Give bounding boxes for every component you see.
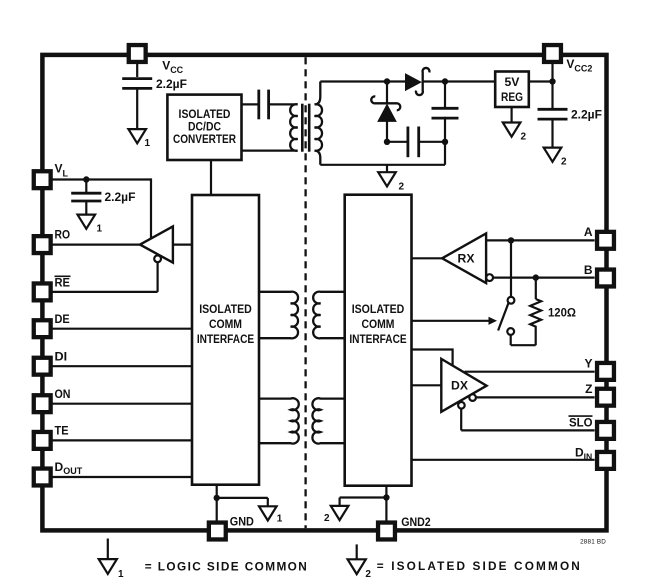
svg-text:B: B <box>584 263 593 277</box>
wire zener to C4 <box>387 141 408 143</box>
wire DC/DC to left comm interface <box>210 160 212 195</box>
isolated DC/DC converter block <box>167 95 241 160</box>
switch S1 blade <box>498 303 509 331</box>
svg-text:V: V <box>566 57 574 71</box>
svg-text:DE: DE <box>55 312 70 326</box>
wire C1 to ground 1 <box>136 88 138 129</box>
svg-text:RE: RE <box>55 276 71 290</box>
svg-text:L: L <box>63 168 69 178</box>
svg-text:D: D <box>55 460 64 474</box>
wire VL pin to node <box>51 178 151 180</box>
wire comm interface to DX input <box>412 384 442 386</box>
ground 2 (isolated common) <box>331 506 349 520</box>
ground 2 (5V REG) <box>503 123 521 137</box>
capacitor C1 2.2uF (VCC) <box>122 77 152 80</box>
svg-text:2: 2 <box>324 513 330 524</box>
pin RO <box>34 236 51 253</box>
svg-text:5V: 5V <box>505 75 521 89</box>
wire comm interface to RX <box>412 257 443 259</box>
svg-text:2: 2 <box>399 182 405 193</box>
svg-text:INTERFACE: INTERFACE <box>197 332 254 346</box>
wire A node to switch <box>510 240 512 297</box>
svg-text:ON: ON <box>55 387 71 401</box>
wire VL node to receiver buffer <box>150 178 152 239</box>
svg-text:TE: TE <box>55 424 69 438</box>
wire GND2 node to ground 2 <box>340 496 387 498</box>
zener diode D2 <box>386 82 388 104</box>
svg-text:= LOGIC SIDE COMMON: = LOGIC SIDE COMMON <box>145 560 307 574</box>
pin VL <box>34 171 51 188</box>
transformer T1 core <box>301 104 304 152</box>
resistor R1 120ohm <box>530 299 541 345</box>
svg-text:COMM: COMM <box>209 317 242 331</box>
IC package boundary <box>42 55 606 531</box>
svg-text:V: V <box>162 58 170 72</box>
wire DX bubble to pin Z <box>476 396 595 398</box>
wire switch to resistor bottom <box>510 335 512 345</box>
wire RX to pin A <box>486 239 594 241</box>
wire TE <box>51 439 192 441</box>
receiver buffer (RO) <box>140 226 173 262</box>
svg-text:1: 1 <box>97 224 103 235</box>
pin ON <box>34 395 51 412</box>
left isolated comm interface block <box>192 195 259 485</box>
wire VCC pin to C1 <box>136 62 138 77</box>
wire 5V REG to VCC2 node <box>529 80 553 82</box>
svg-text:INTERFACE: INTERFACE <box>349 332 406 346</box>
pin DE <box>34 320 51 337</box>
pin VCC2 <box>544 45 561 62</box>
switch S1 lower contact <box>507 328 514 335</box>
wire smoothing vertical <box>444 82 446 108</box>
schottky diode D1 <box>406 74 421 90</box>
wire DC/DC to T1 primary bottom <box>242 150 294 152</box>
node B junction <box>533 274 539 280</box>
node VCC2 <box>549 78 555 84</box>
legend ground 1 symbol <box>107 539 109 560</box>
pin B <box>597 270 614 287</box>
pin TE <box>34 432 51 449</box>
svg-text:120Ω: 120Ω <box>548 306 576 320</box>
isolation barrier (dashed) <box>304 57 306 528</box>
wire VCC2 pin stub <box>551 62 553 82</box>
svg-text:DI: DI <box>55 349 68 363</box>
wire comm interface to GND2 pin <box>385 486 387 523</box>
transformer T1 secondary winding <box>315 82 322 165</box>
wire RO pin to buffer <box>51 244 140 246</box>
svg-text:DX: DX <box>451 379 469 393</box>
node rectifier input <box>384 78 390 84</box>
wire comm interface to GND pin <box>216 485 218 523</box>
DX bubble (SLO) <box>458 402 465 409</box>
svg-text:2: 2 <box>521 132 527 143</box>
wire DC/DC to coupling cap <box>242 103 259 105</box>
DX bubble (Z) <box>469 394 476 401</box>
svg-text:Z: Z <box>585 382 592 396</box>
pin DIN <box>597 452 614 469</box>
buffer enable bubble <box>154 255 161 262</box>
wire DE <box>51 328 192 330</box>
5V regulator block <box>495 72 529 108</box>
wire comm interface to DX enable <box>412 350 453 366</box>
svg-text:A: A <box>584 225 593 239</box>
svg-text:COMM: COMM <box>362 317 395 331</box>
svg-text:Y: Y <box>584 356 592 370</box>
node zener bottom <box>384 139 390 145</box>
pin DOUT <box>34 469 51 486</box>
svg-text:2: 2 <box>365 569 371 580</box>
transformer T2 left winding <box>259 292 298 339</box>
wire DX bubble to pin SLO <box>460 409 462 431</box>
svg-text:2.2µF: 2.2µF <box>105 190 136 204</box>
wire ON <box>51 403 192 405</box>
svg-text:GND2: GND2 <box>401 515 431 529</box>
pin VCC <box>129 45 146 62</box>
node rectifier output <box>442 78 448 84</box>
wire C2 to ground 1 <box>85 201 87 215</box>
transformer T1 primary winding <box>290 104 297 151</box>
svg-text:ISOLATED: ISOLATED <box>199 302 252 316</box>
svg-text:CC2: CC2 <box>574 64 592 74</box>
svg-text:2881 BD: 2881 BD <box>580 539 606 546</box>
svg-text:= ISOLATED SIDE COMMON: = ISOLATED SIDE COMMON <box>377 559 580 573</box>
pin Z <box>597 389 614 406</box>
RX inverting bubble <box>486 274 493 281</box>
pin DI <box>34 358 51 375</box>
wire B node to resistor <box>535 278 537 299</box>
wire RE to buffer bubble <box>51 291 158 293</box>
pin A <box>597 232 614 249</box>
legend ground 2 symbol <box>356 544 358 559</box>
wire T1 secondary bottom lead <box>320 164 445 166</box>
coupling capacitor C3 <box>257 90 260 120</box>
wire switch control with arrow <box>412 320 490 322</box>
svg-text:1: 1 <box>277 514 283 525</box>
driver DX <box>441 359 486 412</box>
ground 1 (VL cap) <box>78 215 96 229</box>
switch S1 upper contact <box>508 297 515 304</box>
ground 2 (rectifier) <box>386 165 388 172</box>
capacitor C4 (series) <box>406 127 409 158</box>
svg-text:2.2µF: 2.2µF <box>571 108 602 122</box>
capacitor C2 2.2uF (VL) <box>71 192 101 195</box>
pin GND2 <box>378 523 395 540</box>
transformer T2 right winding <box>313 292 345 339</box>
wire DIN <box>412 459 595 461</box>
svg-text:V: V <box>55 162 63 176</box>
svg-text:1: 1 <box>145 138 151 149</box>
ground 2 (VCC2 cap) <box>544 148 562 162</box>
transformer T3 right winding <box>312 398 344 443</box>
wire buffer to comm interface <box>173 244 192 246</box>
node VL junction <box>83 176 89 182</box>
receiver RX <box>442 233 486 283</box>
wire DX to pin Y <box>465 371 595 373</box>
wire C2 stem <box>85 180 87 193</box>
capacitor C6 2.2uF (VCC2) <box>538 108 568 111</box>
svg-text:2.2µF: 2.2µF <box>156 77 187 91</box>
wire C4 to smoothing node <box>419 141 445 143</box>
node GND junction <box>214 495 220 501</box>
node GND2 junction <box>383 494 389 500</box>
wire DOUT <box>51 476 192 478</box>
svg-text:RX: RX <box>458 252 476 266</box>
wire rectifier output to 5V REG <box>445 80 495 82</box>
svg-text:ISOLATED: ISOLATED <box>352 302 405 316</box>
svg-text:CONVERTER: CONVERTER <box>173 132 236 146</box>
wire GND node to ground 1 <box>217 497 268 499</box>
pin Y <box>597 363 614 380</box>
svg-text:OUT: OUT <box>63 466 83 476</box>
capacitor C5 (smoothing) <box>432 107 459 110</box>
ground 1 (VCC cap) <box>128 129 146 143</box>
transformer T3 left winding <box>259 398 299 443</box>
svg-text:GND: GND <box>230 515 254 529</box>
svg-text:REG: REG <box>501 90 523 104</box>
svg-text:RO: RO <box>55 228 71 242</box>
svg-text:SLO: SLO <box>569 415 593 429</box>
right isolated comm interface block <box>345 195 412 486</box>
pin GND <box>209 523 226 540</box>
wire DI <box>51 365 192 367</box>
wire T1 secondary top lead <box>320 80 387 82</box>
node A junction <box>508 237 514 243</box>
wire VCC2 node to C6 <box>551 82 553 109</box>
svg-text:CC: CC <box>170 65 183 75</box>
svg-text:2: 2 <box>561 157 567 168</box>
ground 1 (logic common) <box>259 506 277 520</box>
svg-text:1: 1 <box>118 569 124 580</box>
wire 5V REG to ground 2 <box>511 107 513 123</box>
wire C3 to T1 primary <box>269 103 293 105</box>
wire RX bubble to pin B <box>493 277 595 279</box>
wire C6 to ground 2 <box>551 119 553 148</box>
node smoothing bottom <box>442 139 448 145</box>
